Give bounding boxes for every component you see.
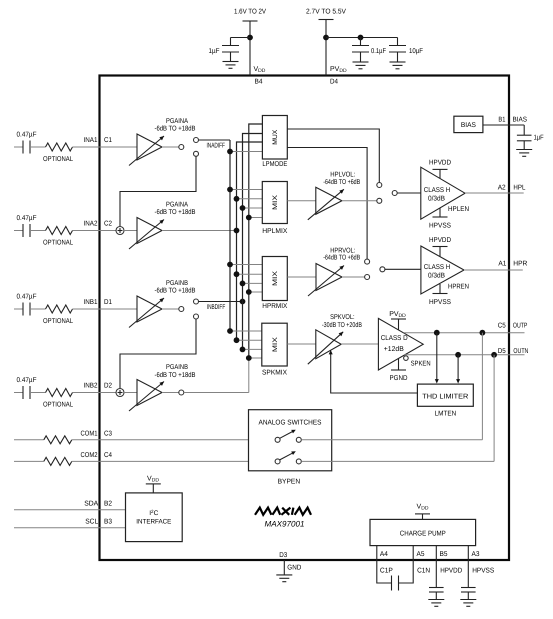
wire HPR pole to amp (385, 268, 421, 270)
svg-text:BYPEN: BYPEN (278, 479, 301, 486)
ground BIAS cap (516, 149, 532, 151)
wire BIAS to pin (483, 124, 524, 126)
summing node INB2 (116, 389, 124, 397)
switch throw HPL lower (377, 198, 382, 203)
svg-text:I2C: I2C (149, 509, 158, 517)
svg-text:0.47µF: 0.47µF (17, 377, 37, 384)
svg-text:D3: D3 (279, 552, 287, 559)
svg-text:VDD: VDD (417, 504, 429, 512)
svg-text:INB2: INB2 (84, 383, 98, 390)
resistor OPTIONAL INA1 (30, 146, 46, 148)
node bus3 to SPKMIX (240, 347, 246, 353)
svg-text:MIX: MIX (272, 194, 279, 210)
svg-text:INBDIFF: INBDIFF (207, 304, 226, 311)
switch BYPEN COM2 throw (296, 459, 301, 464)
svg-text:10µF: 10µF (409, 48, 423, 55)
switch BYPEN COM2 blade (280, 452, 295, 460)
svg-text:PGAINA: PGAINA (166, 118, 188, 125)
svg-text:GND: GND (287, 565, 301, 572)
svg-text:HPLVOL:: HPLVOL: (330, 172, 355, 179)
svg-text:BIAS: BIAS (513, 117, 528, 124)
svg-text:SCL: SCL (85, 519, 98, 526)
resistor OPTIONAL INB1 (30, 308, 46, 310)
switch BYPEN COM2 pole (275, 459, 280, 464)
wire bus line2 INA2 (237, 142, 263, 340)
resistor OPTIONAL INA2 (30, 230, 46, 232)
svg-text:0/3dB: 0/3dB (428, 272, 445, 280)
svg-text:OPTIONAL: OPTIONAL (43, 240, 73, 247)
op-amp HPRVOL -64dB TO +6dB (316, 264, 342, 291)
wire HPLVOL output (342, 200, 377, 202)
switch BYPEN COM1 throw (296, 437, 301, 442)
svg-text:HPVSS: HPVSS (472, 568, 494, 575)
svg-text:A3: A3 (472, 551, 480, 558)
wire PGAINA2 output to bus line2 (162, 230, 237, 232)
capacitor 0.47uF INA1 input (14, 146, 23, 148)
svg-text:PGND: PGND (390, 375, 408, 382)
ground 10uF cap (390, 61, 406, 63)
node bus2 INA2 junction (234, 228, 240, 234)
wire SPKVOL output (341, 343, 378, 345)
node bus1 to SPKMIX (227, 328, 233, 334)
svg-text:OUTP: OUTP (513, 323, 528, 330)
op-amp HPLVOL -64dB TO +6dB (316, 187, 342, 214)
svg-text:B2: B2 (104, 501, 112, 508)
svg-text:D4: D4 (330, 79, 338, 86)
svg-text:B3: B3 (104, 519, 112, 526)
svg-text:HPVDD: HPVDD (429, 237, 451, 244)
node bus1 to LPMODE mux (227, 149, 233, 155)
pin B5 HPVDD (435, 546, 437, 560)
IC boundary MAX97001 (100, 76, 510, 561)
node OUTN bypass tap (491, 352, 497, 358)
svg-text:C1P: C1P (380, 568, 393, 575)
node bus2 to SPKMIX (234, 337, 240, 343)
switch BYPEN COM1 blade (280, 431, 295, 439)
wire INADIFF to bus (199, 139, 231, 141)
node bus1 to HPLMIX (227, 187, 233, 193)
wire COM2 input (14, 460, 44, 462)
wire PGAINB2 output (162, 392, 179, 394)
capacitor 0.47uF INB1 input (14, 308, 23, 310)
capacitor 0.47uF INA2 input (14, 230, 23, 232)
power HPVSS of HPR (439, 284, 441, 294)
node bus2 to HPRMIX (234, 271, 240, 277)
wire OUTP sense arrow (436, 333, 438, 382)
wire PGAINA1 output (162, 146, 179, 148)
wire HPRMIX input stubs (230, 264, 262, 266)
wire INB2 to summer (73, 392, 117, 394)
wire OUTN (404, 354, 524, 356)
svg-text:HPRVOL:: HPRVOL: (330, 247, 355, 254)
wire COM2 switch to OUTN (301, 460, 494, 462)
svg-text:HPREN: HPREN (448, 284, 469, 291)
wire INA2 to summer (73, 230, 117, 232)
wire INADIFF lower throw to INA2 summer (120, 156, 196, 226)
node OUTN limiter tap (455, 352, 461, 358)
block I2C INTERFACE (126, 493, 183, 542)
svg-text:HPVSS: HPVSS (429, 223, 451, 230)
svg-text:0.47µF: 0.47µF (17, 215, 37, 222)
svg-text:HPL: HPL (513, 185, 525, 192)
svg-text:A1: A1 (498, 261, 506, 268)
capacitor 0.1uF PVDD bypass (360, 38, 362, 46)
switch contact INB2 output (179, 390, 184, 395)
op-amp U-SPK CLASS D +12dB (378, 318, 423, 370)
wire HPRVOL output (342, 276, 365, 278)
capacitor 1uF BIAS (523, 125, 525, 135)
svg-text:0.47µF: 0.47µF (17, 132, 37, 139)
svg-text:B5: B5 (440, 551, 448, 558)
wire COM1 switch to OUTP (301, 439, 482, 441)
svg-text:-64dB TO +6dB: -64dB TO +6dB (323, 178, 360, 186)
svg-text:OUTN: OUTN (513, 348, 528, 355)
pin A4 C1P (376, 546, 378, 560)
svg-text:C1N: C1N (417, 568, 430, 575)
svg-text:D5: D5 (498, 348, 506, 355)
wire INB1 to PGA (73, 308, 138, 310)
svg-text:C3: C3 (104, 431, 112, 438)
switch pole HPL (392, 191, 397, 196)
svg-text:-6dB TO +18dB: -6dB TO +18dB (155, 208, 196, 216)
node OUTP bypass tap (480, 330, 486, 336)
wire HPL output (465, 192, 524, 194)
switch pole INBDIFF (179, 307, 184, 312)
wire SPKMIX input stubs (230, 330, 262, 332)
capacitor HPVSS bypass (467, 560, 469, 588)
svg-text:CHARGE PUMP: CHARGE PUMP (400, 531, 446, 538)
wire HPLMIX input stubs (230, 189, 262, 191)
wire SDA (14, 509, 126, 511)
switch pole HPR (380, 267, 385, 272)
svg-text:CLASS H: CLASS H (424, 187, 451, 194)
svg-text:COM2: COM2 (81, 452, 98, 459)
svg-text:HPRMIX: HPRMIX (262, 303, 287, 310)
block CHARGE PUMP (370, 519, 476, 545)
svg-text:LPMODE: LPMODE (262, 161, 287, 168)
svg-text:VDD: VDD (147, 476, 159, 484)
node INBDIFF on bus line3 (240, 299, 246, 305)
capacitor 1uF VDD bypass (222, 45, 239, 47)
svg-text:C5: C5 (498, 323, 506, 330)
op-amp PGAINB1 -6dB TO +18dB (137, 296, 162, 322)
svg-text:C4: C4 (104, 452, 112, 459)
wire INB2 output to bus line4 (184, 392, 249, 394)
op-amp PGAINA1 -6dB TO +18dB (137, 134, 162, 160)
svg-text:HPVSS: HPVSS (429, 299, 451, 306)
power PGND of CLASS D (398, 358, 400, 370)
svg-text:VDD: VDD (254, 66, 266, 74)
svg-text:BIAS: BIAS (461, 122, 476, 129)
wire OUTN to bypass switch (493, 355, 495, 462)
op-amp U-HPL CLASS H 0/3dB (421, 167, 465, 219)
svg-text:OPTIONAL: OPTIONAL (43, 156, 73, 163)
wire bus line4 INB2 (249, 124, 263, 358)
svg-text:D2: D2 (104, 383, 112, 390)
wire OUTP (404, 332, 525, 334)
wire bus line3 INB1 (243, 134, 263, 350)
op-amp SPKVOL -30dB TO +20dB (316, 330, 341, 359)
svg-text:B4: B4 (255, 79, 263, 86)
ground HPVDD cap (428, 599, 444, 601)
svg-text:HPVDD: HPVDD (429, 160, 451, 167)
wire SPKMIX output (287, 343, 316, 345)
svg-text:INB1: INB1 (84, 299, 98, 306)
node bus4 to SPKMIX (246, 355, 252, 361)
mixer U-HPRMIX (262, 257, 287, 301)
svg-text:-6dB TO +18dB: -6dB TO +18dB (155, 371, 196, 379)
svg-text:OPTIONAL: OPTIONAL (43, 402, 73, 409)
node OUTP limiter tap (434, 330, 440, 336)
svg-text:HPR: HPR (513, 261, 527, 268)
wire mux output to HPR switch (287, 148, 367, 260)
svg-text:COM1: COM1 (81, 431, 98, 438)
wire PGAINB1 output (162, 308, 179, 310)
wire THD LIMITER feedback to SPKVOL (331, 352, 418, 393)
svg-text:HPVDD: HPVDD (440, 568, 462, 575)
svg-text:CLASS D: CLASS D (381, 335, 408, 342)
wire INBDIFF lower throw to INB2 summer (120, 319, 196, 389)
wire HPLMIX output (287, 200, 316, 202)
op-amp PGAINB2 -6dB TO +18dB (137, 380, 162, 406)
svg-text:-6dB TO +18dB: -6dB TO +18dB (155, 287, 196, 295)
svg-text:B1: B1 (498, 117, 505, 124)
wire HPL pole to amp (397, 192, 421, 194)
node bus1 to HPRMIX (227, 262, 233, 268)
mux U-LPMODE (262, 116, 287, 160)
svg-text:MUX: MUX (272, 129, 279, 145)
svg-text:ANALOG SWITCHES: ANALOG SWITCHES (259, 420, 322, 427)
svg-text:PGAINB: PGAINB (166, 364, 188, 371)
node PVDD cap junction (358, 35, 364, 41)
node bus3 to HPLMIX (240, 205, 246, 211)
block BIAS (454, 116, 483, 132)
mixer U-SPKMIX (262, 323, 287, 366)
svg-text:INA2: INA2 (84, 221, 98, 228)
node VDD supply junction (247, 35, 253, 41)
switch throw INADIFF lower (194, 151, 199, 156)
svg-text:PVDD: PVDD (330, 66, 347, 74)
switch throw HPL upper (377, 183, 382, 188)
svg-text:THD LIMITER: THD LIMITER (422, 393, 468, 400)
switch throw HPR lower (365, 275, 370, 280)
svg-text:HPLEN: HPLEN (448, 206, 469, 213)
wire HPRMIX output (287, 276, 316, 278)
wire INA1 to PGA (73, 146, 138, 148)
ground 0.1uF cap (353, 61, 369, 63)
svg-text:A4: A4 (380, 551, 388, 558)
svg-text:MIX: MIX (272, 336, 279, 352)
svg-text:PGAINB: PGAINB (166, 280, 188, 287)
wire bus line1 INADIFF (229, 140, 231, 331)
svg-text:INADIFF: INADIFF (206, 143, 225, 150)
svg-text:HPLMIX: HPLMIX (262, 228, 287, 235)
svg-text:-6dB TO +18dB: -6dB TO +18dB (155, 125, 196, 133)
node bus4 to HPRMIX (246, 289, 252, 295)
wire INBDIFF to bus line3 (199, 301, 243, 303)
wire HPR output (464, 269, 523, 271)
svg-text:INTERFACE: INTERFACE (136, 519, 172, 526)
wire PVDD to bypass caps (326, 37, 398, 39)
svg-text:OPTIONAL: OPTIONAL (43, 318, 73, 325)
wire LPMODE mux input stub (230, 151, 262, 153)
svg-text:MIX: MIX (272, 270, 279, 286)
svg-text:A2: A2 (498, 185, 506, 192)
switch pole INADIFF (179, 145, 184, 150)
capacitor HPVDD bypass (435, 560, 437, 588)
node bus3 to HPRMIX (240, 281, 246, 287)
capacitor C1 flying (377, 560, 392, 583)
block ANALOG SWITCHES (249, 410, 332, 471)
svg-text:INA1: INA1 (84, 137, 98, 144)
ground HPVSS cap (460, 599, 476, 601)
capacitor 0.47uF INB2 input (14, 392, 23, 394)
svg-text:SPKEN: SPKEN (411, 361, 431, 368)
svg-text:LMTEN: LMTEN (435, 410, 457, 417)
svg-text:-64dB TO +6dB: -64dB TO +6dB (323, 253, 360, 261)
power HPVSS of HPL (439, 208, 441, 217)
svg-text:CLASS H: CLASS H (424, 264, 451, 271)
svg-text:2.7V TO 5.5V: 2.7V TO 5.5V (306, 9, 346, 16)
op-amp PGAINA2 -6dB TO +18dB (137, 218, 162, 244)
block THD LIMITER (417, 384, 473, 406)
pin A5 C1N (412, 546, 414, 560)
switch throw HPR upper (365, 259, 370, 264)
wire COM1 input (14, 439, 44, 441)
node PVDD supply junction (323, 35, 329, 41)
summing node INA2 (116, 227, 124, 235)
mixer U-HPLMIX (262, 182, 287, 224)
switch throw INBDIFF lower (194, 314, 199, 319)
switch throw INADIFF upper (194, 138, 199, 143)
svg-text:MAX97001: MAX97001 (265, 520, 305, 529)
capacitor 10uF PVDD bypass (397, 38, 399, 46)
wire summer to PGAINB2 (124, 392, 137, 394)
svg-text:C2: C2 (104, 221, 112, 228)
pin A3 HPVSS (467, 546, 469, 560)
wire VDD to bypass cap (231, 37, 251, 39)
resistor OPTIONAL INB2 (30, 392, 46, 394)
node bus2 to HPLMIX (234, 196, 240, 202)
svg-text:+12dB: +12dB (384, 345, 404, 353)
svg-text:1µF: 1µF (534, 135, 544, 142)
svg-text:SDA: SDA (84, 501, 98, 508)
logo MAXIM (255, 508, 311, 515)
svg-text:PGAINA: PGAINA (166, 202, 188, 209)
svg-text:PVDD: PVDD (389, 311, 406, 319)
svg-text:0.1µF: 0.1µF (371, 48, 386, 55)
wire summer to PGAINA2 (124, 230, 137, 232)
switch throw INBDIFF upper (194, 299, 199, 304)
wire OUTP to bypass switch (481, 333, 483, 440)
svg-text:1.6V TO 2V: 1.6V TO 2V (234, 9, 266, 16)
switch BYPEN COM1 pole (275, 437, 280, 442)
svg-text:SPKMIX: SPKMIX (262, 370, 287, 377)
ground VDD bypass (223, 61, 239, 63)
wire mux output to HPL switch (287, 129, 379, 183)
svg-text:1µF: 1µF (209, 48, 220, 55)
svg-text:A5: A5 (417, 551, 425, 558)
svg-text:D1: D1 (104, 299, 112, 306)
svg-text:-30dB TO +20dB: -30dB TO +20dB (322, 321, 362, 329)
wire SCL (14, 527, 126, 529)
ground GND pin (276, 574, 292, 576)
op-amp U-HPR CLASS H 0/3dB (421, 246, 464, 294)
svg-text:0/3dB: 0/3dB (428, 195, 445, 203)
node bus4 to HPLMIX (246, 215, 252, 221)
wire OUTN sense arrow (457, 355, 459, 382)
svg-text:C1: C1 (104, 137, 112, 144)
svg-text:0.47µF: 0.47µF (17, 294, 37, 301)
svg-text:SPKVOL:: SPKVOL: (330, 314, 355, 321)
switch contact SPKEN (404, 356, 409, 361)
